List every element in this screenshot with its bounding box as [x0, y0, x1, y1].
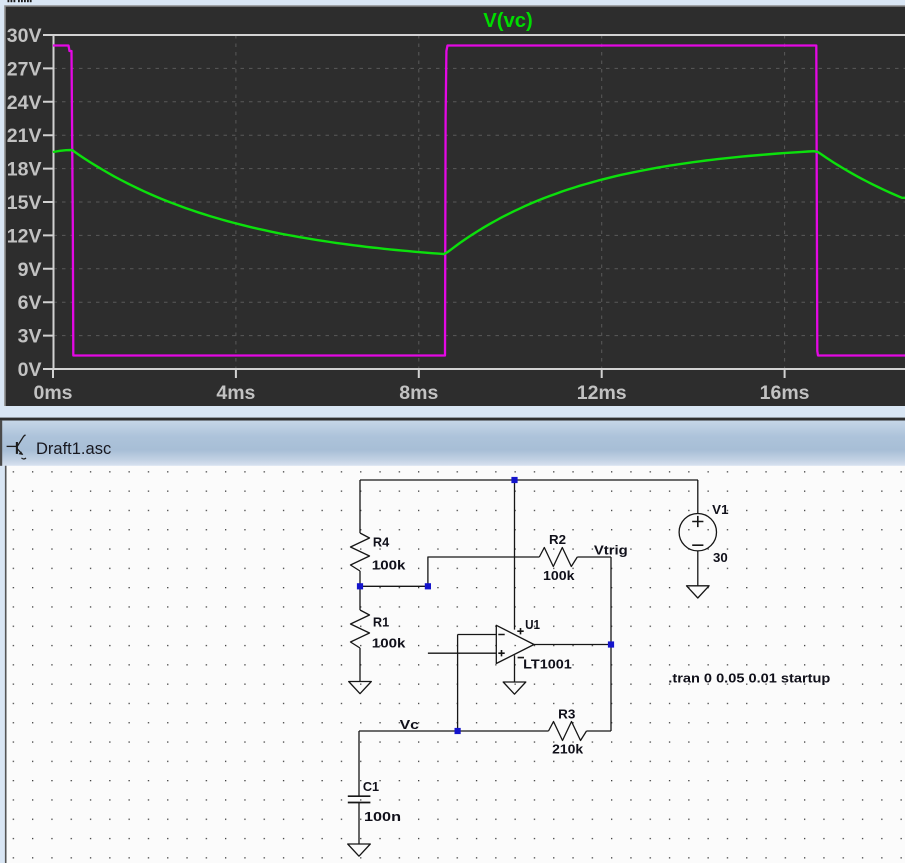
- svg-text:0ms: 0ms: [33, 382, 72, 404]
- svg-text:Draft1.asc: Draft1.asc: [36, 440, 111, 458]
- svg-text:R3: R3: [558, 706, 575, 721]
- svg-text:.tran 0 0.05 0.01 startup: .tran 0 0.05 0.01 startup: [668, 670, 830, 685]
- svg-text:100k: 100k: [372, 635, 406, 650]
- svg-text:24V: 24V: [7, 92, 42, 114]
- svg-text:4ms: 4ms: [216, 382, 255, 404]
- svg-text:Vtrig: Vtrig: [594, 543, 628, 558]
- svg-text:15V: 15V: [7, 192, 42, 214]
- svg-text:R2: R2: [549, 532, 566, 547]
- svg-text:16ms: 16ms: [760, 382, 810, 404]
- svg-text:100k: 100k: [372, 558, 406, 573]
- svg-text:V(vc): V(vc): [483, 10, 533, 32]
- svg-text:9V: 9V: [18, 259, 42, 281]
- svg-text:LT1001: LT1001: [523, 657, 572, 672]
- svg-text:V1: V1: [712, 502, 728, 517]
- svg-text:100n: 100n: [364, 809, 401, 824]
- svg-text:R4: R4: [373, 535, 390, 550]
- svg-text:21V: 21V: [7, 125, 42, 147]
- svg-text:U1: U1: [525, 617, 540, 632]
- svg-text:6V: 6V: [18, 292, 42, 314]
- svg-text:Vc: Vc: [400, 717, 419, 732]
- svg-text:8ms: 8ms: [399, 382, 438, 404]
- svg-text:210k: 210k: [552, 741, 584, 756]
- svg-text:100k: 100k: [543, 568, 575, 583]
- svg-text:12ms: 12ms: [577, 382, 627, 404]
- svg-text:3V: 3V: [18, 326, 42, 348]
- svg-text:30: 30: [713, 550, 728, 565]
- svg-text:C1: C1: [363, 779, 379, 794]
- svg-text:0V: 0V: [18, 359, 42, 381]
- svg-text:R1: R1: [373, 615, 389, 630]
- svg-text:18V: 18V: [7, 159, 42, 181]
- svg-text:30V: 30V: [7, 25, 42, 47]
- svg-text:27V: 27V: [7, 58, 42, 80]
- svg-text:12V: 12V: [7, 225, 42, 247]
